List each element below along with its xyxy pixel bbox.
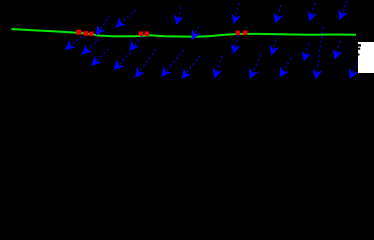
arrow A1 — [96, 16, 110, 36]
arrow B7 long — [316, 27, 323, 80]
arrow A7 — [340, 1, 348, 20]
arrow D1 — [82, 40, 99, 55]
arrow B5 — [272, 40, 277, 55]
arrow B4 — [234, 35, 239, 54]
red marker 3 — [89, 32, 94, 36]
red marker 6 — [236, 31, 241, 35]
red marker 2 — [84, 31, 89, 35]
green curve — [12, 29, 357, 37]
arrow A4 — [234, 3, 239, 24]
red marker 7 — [243, 31, 248, 35]
arrow A2 — [116, 10, 136, 27]
arrow C5 — [182, 56, 200, 79]
arrow B3 — [192, 27, 199, 40]
arrow B2 — [130, 36, 143, 51]
arrow B6 — [304, 44, 309, 62]
white box — [358, 42, 374, 73]
arrow A3 — [177, 7, 182, 25]
arrow B1 — [66, 37, 83, 50]
red marker 5 — [145, 31, 150, 36]
white box notch 2 — [358, 48, 360, 50]
arrow C4 — [162, 50, 185, 76]
white box notch 3 — [358, 54, 360, 56]
arrow C8 — [280, 58, 291, 77]
arrow C3 — [136, 49, 157, 77]
arrow A6 — [310, 3, 316, 21]
arrow B8 — [335, 41, 340, 59]
white box notch 1 — [358, 44, 361, 46]
arrow B9 — [350, 61, 358, 79]
red marker 4 — [139, 31, 144, 36]
arrow A5 — [276, 5, 282, 23]
arrow C2 — [114, 52, 131, 70]
arrow C6 — [215, 56, 223, 78]
arrow C7 — [250, 55, 261, 78]
red marker 1 — [76, 30, 81, 35]
arrow C1 — [92, 49, 109, 66]
